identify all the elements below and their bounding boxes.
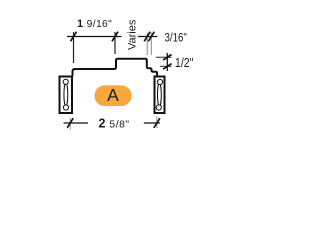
profile outline (stepped top-hat body) (73, 59, 158, 76)
extension line step (114, 32, 116, 54)
callout pill A (94, 85, 131, 106)
left flange slot (64, 83, 68, 106)
half-inch extension bottom (160, 65, 172, 67)
bottom ticks (67, 118, 160, 128)
svg-text:2 5/8": 2 5/8" (99, 116, 130, 130)
right flange rect (155, 77, 165, 114)
half-inch extension top (156, 56, 172, 58)
left flange bottom hole (63, 105, 68, 110)
right flange bottom hole (156, 105, 161, 110)
right flange slot (158, 83, 162, 106)
svg-text:A: A (107, 85, 119, 105)
svg-text:1/2": 1/2" (175, 55, 194, 70)
svg-text:Varies: Varies (127, 19, 139, 50)
left flange top hole (63, 79, 68, 84)
svg-text:1 9/16": 1 9/16" (77, 18, 112, 30)
bottom extension left (69, 118, 71, 130)
bottom dimension line left segment (64, 122, 89, 124)
top dimension line 1 9/16 (67, 36, 122, 38)
extension line step2 left (146, 33, 148, 56)
half-inch ticks (163, 55, 171, 70)
tick marks top row (71, 32, 155, 42)
svg-text:3/16": 3/16" (165, 32, 187, 44)
top dimension line 3/16 segment (138, 36, 158, 38)
left flange rect (60, 77, 73, 114)
bottom extension right (156, 117, 158, 129)
right flange top hole (157, 79, 162, 84)
extension line step2 right (150, 33, 152, 56)
extension line left face (73, 32, 75, 63)
half-inch dimension vertical line (166, 53, 168, 71)
bottom dimension line right segment (144, 122, 160, 124)
